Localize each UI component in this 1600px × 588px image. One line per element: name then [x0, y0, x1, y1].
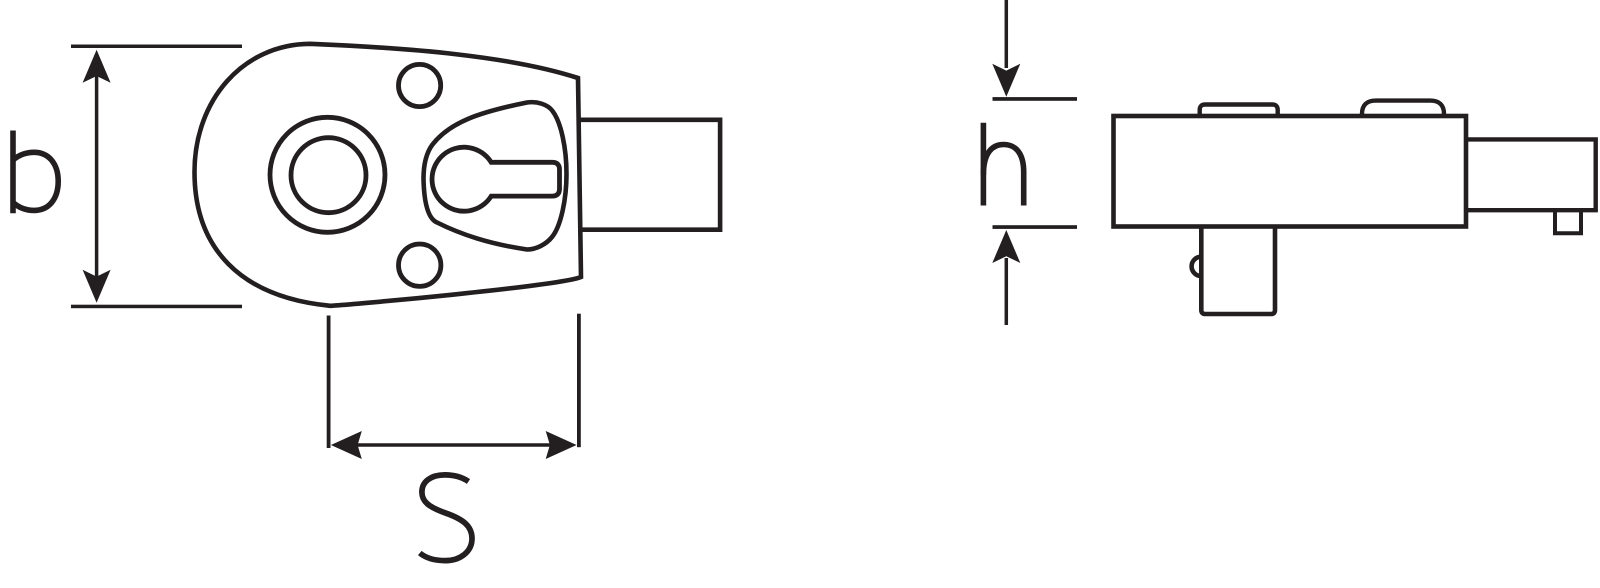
body rectangle (side view) — [1114, 116, 1467, 227]
dimension S: right arrowhead — [546, 431, 577, 459]
dimension S: arrow line — [342, 443, 564, 447]
dimension h label — [983, 123, 1023, 206]
dimension b: bottom extension bar — [71, 305, 242, 309]
drive ring outer circle — [270, 117, 385, 232]
dimension b: top extension bar — [71, 45, 242, 49]
dimension h: bottom arrowhead — [992, 230, 1020, 263]
dimension S: left extension line — [327, 316, 331, 449]
dimension h: bottom extension bar — [993, 225, 1078, 229]
square drive shank — [1201, 227, 1275, 315]
dimension S: left arrowhead — [331, 431, 362, 459]
reversing lever keyhole — [432, 147, 559, 211]
lever boss teardrop outline — [424, 102, 567, 249]
dimension h: bottom arrow shaft — [1005, 258, 1009, 325]
left locating tab — [1200, 105, 1278, 117]
rectangular tang (side view) — [1466, 139, 1596, 210]
tang retaining nub — [1555, 210, 1581, 233]
ball detent — [1192, 257, 1202, 276]
dimension b label — [13, 131, 58, 214]
dimension h: top arrow shaft — [1005, 0, 1009, 68]
drive ring inner circle — [291, 138, 366, 213]
dimension h: top arrowhead — [992, 64, 1020, 97]
ratchet head outline (top view) — [195, 44, 582, 306]
square tang (top view) — [580, 120, 720, 230]
dimension h: top extension bar — [993, 97, 1078, 101]
dimension b: top arrowhead — [83, 50, 111, 83]
top screw hole — [399, 64, 441, 106]
dimension b: arrow shaft — [95, 75, 99, 278]
dimension S: right extension line — [577, 314, 581, 448]
bottom screw hole — [399, 244, 441, 286]
right locating tab — [1362, 101, 1444, 116]
dimension b: bottom arrowhead — [83, 270, 111, 303]
dimension S label — [420, 475, 472, 561]
